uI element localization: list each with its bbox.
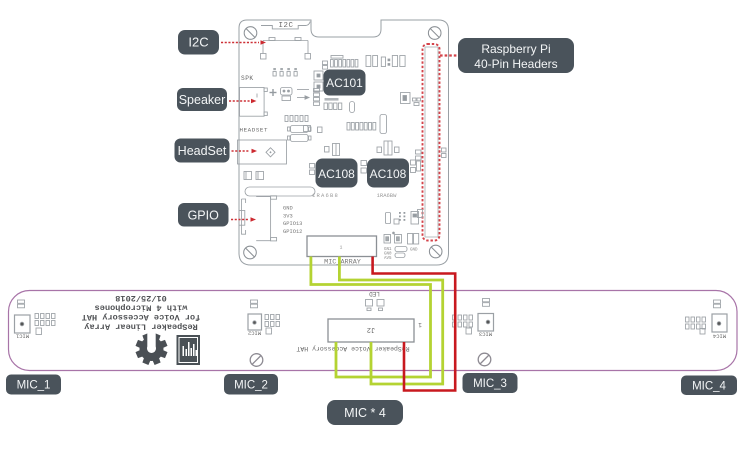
- mic MIC1: [15, 300, 31, 333]
- svg-text:GN0: GN0: [384, 253, 392, 257]
- svg-text:GPIO13: GPIO13: [283, 221, 302, 227]
- svg-text:MIC_1: MIC_1: [17, 380, 51, 392]
- svg-text:MIC4: MIC4: [712, 333, 726, 340]
- wire green 1: [311, 257, 431, 378]
- svg-text:HeadSet: HeadSet: [178, 144, 227, 158]
- pads between AC108s: [361, 161, 367, 174]
- svg-text:01/25/2018: 01/25/2018: [115, 293, 167, 303]
- pads above left AC108: [325, 144, 340, 156]
- svg-text:Speaker: Speaker: [179, 93, 226, 107]
- I2C silkscreen notch line: [261, 22, 310, 29]
- svg-text:MIC_ARRAY: MIC_ARRAY: [324, 259, 361, 267]
- gear logo: [136, 333, 168, 365]
- label MIC * 4: [327, 400, 403, 425]
- LED silk: [369, 290, 380, 297]
- mounting hole top-right: [428, 27, 441, 40]
- mounting hole top-left: [244, 27, 257, 40]
- waveform logo: [177, 335, 201, 365]
- arrow HeadSet: [232, 150, 251, 152]
- arrow I2C: [221, 42, 259, 44]
- IC U3 small: [401, 93, 421, 106]
- small LED part right of speaker: [281, 88, 310, 101]
- svg-text:GN1: GN1: [384, 248, 392, 252]
- svg-text:MIC2: MIC2: [248, 330, 261, 337]
- svg-text:3V3: 3V3: [283, 213, 293, 219]
- GPIO net names text: [283, 206, 302, 235]
- op area small parts row below I2C connector: [285, 116, 311, 142]
- label HeadSet: [175, 139, 230, 163]
- svg-text:MIC3: MIC3: [479, 331, 492, 338]
- board title text (rotated 180): [82, 293, 201, 332]
- arrow Speaker: [229, 100, 250, 102]
- svg-text:AC101: AC101: [326, 76, 363, 90]
- GPIO FPC connector: [239, 196, 277, 241]
- wire green 2: [339, 257, 442, 385]
- svg-text:GPIO: GPIO: [188, 209, 220, 223]
- svg-text:MIC1: MIC1: [15, 333, 29, 340]
- svg-text:1: 1: [340, 245, 343, 251]
- mounting hole bottom board left: [250, 354, 263, 367]
- svg-text:I2C: I2C: [188, 35, 208, 50]
- label MIC_4: [681, 376, 737, 396]
- mic MIC3: [478, 299, 494, 332]
- svg-text:GPIO12: GPIO12: [283, 229, 302, 235]
- mic array board outline: [9, 291, 738, 371]
- arrow GPIO: [231, 219, 249, 221]
- label MIC_1: [6, 375, 61, 395]
- parts below AC101: [304, 89, 355, 133]
- wire red: [373, 257, 456, 391]
- board name silk (rotated 180): [296, 345, 409, 352]
- I2C connector J3: [261, 38, 311, 60]
- pads left of header: [416, 148, 447, 218]
- speaker connector: [240, 88, 268, 117]
- resistor row mid board: [347, 123, 376, 131]
- svg-text:1RA6B8: 1RA6B8: [312, 192, 339, 199]
- connector J2: [328, 319, 414, 342]
- svg-text:I2C: I2C: [278, 22, 293, 30]
- capacitor row above AC101: [323, 56, 358, 70]
- capacitor row above speaker: [273, 68, 297, 76]
- pads left of AC108: [310, 164, 315, 175]
- svg-text:MIC * 4: MIC * 4: [344, 406, 386, 420]
- pads right of AC108: [411, 160, 421, 173]
- svg-text:40-Pin Headers: 40-Pin Headers: [474, 57, 557, 71]
- dashed link to header: [440, 54, 457, 56]
- 40-pin header highlight (red dashed): [423, 44, 440, 241]
- svg-text:ReSpeaker Linear Array: ReSpeaker Linear Array: [84, 322, 197, 332]
- label Speaker: [177, 88, 227, 111]
- label MIC_3: [463, 373, 518, 393]
- svg-text:HEADSET: HEADSET: [240, 127, 269, 134]
- top board outline (voice accessory HAT PCB): [239, 20, 449, 265]
- svg-text:ReSpeaker Voice Accessory HAT: ReSpeaker Voice Accessory HAT: [296, 345, 409, 352]
- svg-text:SPK: SPK: [241, 75, 254, 82]
- svg-text:1RA6BW: 1RA6BW: [377, 192, 398, 199]
- svg-text:with 4 Microphones: with 4 Microphones: [95, 303, 188, 313]
- svg-text:AC108: AC108: [318, 167, 355, 181]
- svg-text:AV5: AV5: [384, 257, 392, 261]
- svg-text:MIC_3: MIC_3: [473, 378, 507, 390]
- svg-text:GND: GND: [283, 206, 293, 212]
- mic MIC2: [248, 300, 262, 330]
- diamond mark on jack: [266, 148, 275, 157]
- parts right of MIC ARRAY connector: [384, 232, 419, 244]
- 40-pin header body: [425, 47, 438, 237]
- chip AC108 right: [367, 159, 409, 188]
- svg-text:Raspberry Pi: Raspberry Pi: [481, 42, 550, 56]
- caps left of AC101: [314, 71, 323, 91]
- mounting hole bottom-right: [429, 245, 442, 258]
- svg-text:MIC_4: MIC_4: [692, 381, 726, 393]
- capacitor pads right of top row: [366, 56, 405, 67]
- pin 1 marker J2: [418, 321, 422, 328]
- svg-text:MIC_2: MIC_2: [234, 380, 268, 392]
- two small parts below headset: [244, 172, 264, 180]
- svg-text:for Voice Accessory HAT: for Voice Accessory HAT: [82, 312, 201, 322]
- mounting hole bottom-left: [244, 246, 257, 259]
- mic MIC4: [712, 300, 727, 332]
- parts lower-mid cluster: [386, 212, 419, 225]
- svg-text:1: 1: [418, 321, 422, 328]
- label GPIO: [178, 203, 229, 227]
- chip AC108 left: [316, 159, 358, 188]
- connector MIC ARRAY: [307, 236, 377, 257]
- pads above right AC108: [377, 141, 399, 155]
- label I2C: [178, 30, 219, 55]
- svg-text:LED: LED: [369, 290, 380, 297]
- svg-text:GND: GND: [410, 249, 418, 253]
- mounting hole bottom board right: [478, 353, 491, 366]
- label MIC_2: [224, 374, 278, 395]
- label Raspberry Pi 40-Pin Headers: [458, 38, 574, 73]
- chip AC101: [324, 70, 366, 96]
- audio jack slot (stadium): [245, 187, 315, 196]
- vertical cap right-mid: [380, 115, 387, 134]
- plus mark: [270, 89, 277, 96]
- svg-text:J2: J2: [367, 325, 375, 333]
- svg-text:AC108: AC108: [370, 167, 407, 181]
- headset jack: [238, 140, 287, 164]
